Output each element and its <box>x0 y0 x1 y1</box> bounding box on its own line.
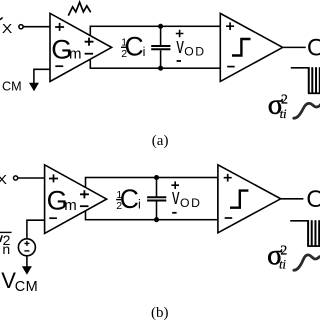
svg-text:X: X <box>0 173 8 187</box>
svg-text:O: O <box>307 35 320 62</box>
svg-text:C: C <box>125 31 144 61</box>
svg-text:OD: OD <box>180 196 201 210</box>
svg-text:i: i <box>138 197 141 211</box>
svg-text:v: v <box>176 33 184 58</box>
svg-text:CM: CM <box>15 279 39 295</box>
svg-text:X: X <box>2 22 13 36</box>
svg-text:ti: ti <box>279 258 286 272</box>
svg-text:(b): (b) <box>151 305 169 320</box>
svg-text:2: 2 <box>280 242 287 257</box>
svg-text:m: m <box>64 197 77 214</box>
svg-text:m: m <box>69 46 82 63</box>
svg-text:ti: ti <box>280 107 287 121</box>
svg-text:2: 2 <box>281 92 288 107</box>
svg-text:OD: OD <box>184 44 205 58</box>
svg-text:(a): (a) <box>152 133 169 149</box>
svg-text:v: v <box>172 184 180 209</box>
svg-text:O: O <box>306 186 320 213</box>
svg-text:CM: CM <box>2 79 22 93</box>
svg-text:n: n <box>2 241 10 257</box>
svg-text:C: C <box>120 184 139 214</box>
svg-text:i: i <box>143 45 146 59</box>
